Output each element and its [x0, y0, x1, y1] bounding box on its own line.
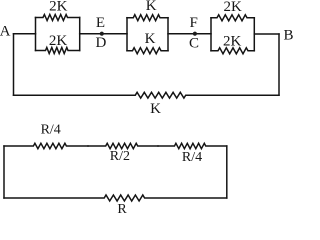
svg-text:R: R	[117, 202, 127, 215]
resistor K on bottom return wire	[14, 92, 280, 98]
svg-text:R/2: R/2	[110, 149, 130, 164]
resistor R/4 (top-left) with top wire	[4, 143, 88, 148]
resistor 2K (top of first parallel pair)	[36, 15, 80, 21]
wire right vertical down from B	[278, 34, 280, 95]
resistor K (top of second parallel pair)	[127, 15, 168, 21]
svg-text:D: D	[95, 35, 106, 51]
wire block3 to node B	[254, 33, 279, 35]
wire block1 to block2 through node E/D	[80, 33, 127, 35]
resistor 2K (bottom of third parallel pair)	[211, 48, 254, 54]
node E/D junction dot	[100, 32, 104, 36]
svg-text:2K: 2K	[223, 34, 242, 50]
svg-text:R/4: R/4	[41, 123, 61, 138]
wire A to first parallel block	[14, 33, 36, 35]
wire block2 left edge	[126, 18, 128, 51]
wire left vertical from A down	[13, 34, 15, 95]
wire block3 left edge	[210, 18, 212, 51]
resistor R/2 (top-middle) with wire	[88, 143, 158, 148]
resistor R/4 (top-right) with wire	[158, 143, 227, 148]
wire block1 left edge	[35, 18, 37, 51]
svg-text:B: B	[283, 28, 293, 44]
wire bottom-loop right edge	[226, 146, 228, 198]
resistor R (bottom wire)	[4, 195, 227, 201]
svg-text:2K: 2K	[49, 33, 68, 49]
svg-text:R/4: R/4	[182, 150, 202, 165]
svg-text:E: E	[96, 15, 105, 31]
svg-text:2K: 2K	[49, 0, 68, 15]
svg-text:C: C	[189, 36, 199, 52]
resistor 2K (top of third parallel pair)	[211, 15, 254, 21]
wire block2 to block3 through node F/C	[168, 33, 211, 35]
node F/C junction dot	[193, 32, 197, 36]
wire block2 right edge	[167, 18, 169, 51]
svg-text:K: K	[150, 101, 161, 117]
svg-text:A: A	[0, 23, 11, 39]
resistor 2K (bottom of first parallel pair)	[36, 48, 80, 54]
wire block3 right edge	[253, 18, 255, 51]
svg-text:K: K	[145, 31, 156, 47]
svg-text:F: F	[190, 15, 198, 31]
svg-text:2K: 2K	[224, 0, 243, 15]
wire block1 right edge	[79, 18, 81, 51]
wire bottom-loop left edge	[3, 146, 5, 198]
svg-text:K: K	[146, 0, 157, 14]
resistor K (bottom of second parallel pair)	[127, 48, 168, 54]
